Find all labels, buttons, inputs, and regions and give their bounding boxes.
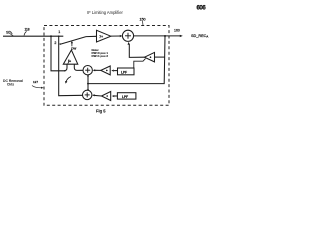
wire T2 output to S1	[128, 42, 145, 58]
figure caption	[96, 108, 106, 113]
junction node at input split	[50, 35, 52, 37]
wire amp to summer S1	[111, 35, 123, 37]
wire switch to amp	[86, 35, 97, 37]
switch arm SW	[59, 37, 86, 45]
wire return path 2 (to summer C2)	[59, 36, 83, 95]
output label SD_REC	[191, 34, 208, 39]
wire F1 to T3	[111, 70, 117, 72]
svg-text:127: 127	[33, 80, 38, 84]
svg-text:150: 150	[140, 18, 146, 22]
svg-text:160: 160	[174, 28, 180, 32]
feedback amp T2	[145, 52, 165, 62]
summer S1	[122, 30, 133, 41]
filter box F2	[117, 93, 135, 99]
wire input SDL	[3, 35, 63, 37]
title	[87, 10, 123, 15]
svg-text:SDL: SDL	[6, 30, 13, 35]
label 160	[174, 28, 180, 32]
svg-text:LPF: LPF	[121, 70, 127, 74]
leader arrow at return wire	[65, 77, 71, 84]
svg-text:606: 606	[197, 6, 207, 12]
summer C2	[83, 90, 92, 99]
sheet number 606	[197, 6, 207, 12]
wire F2 to T4	[112, 95, 118, 97]
gain amp T4	[102, 92, 111, 101]
svg-text:DW=1 pos 2: DW=1 pos 2	[92, 54, 109, 58]
limiting amp A1	[97, 30, 111, 42]
wire return path 1 (to integrator)	[51, 36, 66, 71]
summer C1	[83, 66, 92, 75]
svg-text:1: 1	[58, 30, 60, 34]
note text	[92, 48, 109, 58]
input label SDL	[6, 30, 14, 36]
svg-text:LPF: LPF	[122, 95, 128, 99]
junction node contact	[58, 35, 60, 37]
label 118	[24, 28, 30, 36]
svg-text:∫+: ∫+	[67, 60, 72, 64]
label 150	[140, 18, 146, 26]
wire feedback tap down and across	[88, 36, 165, 84]
svg-text:SD_RECA: SD_RECA	[191, 34, 208, 39]
switch position label 1	[58, 30, 60, 34]
filter box F1	[118, 68, 135, 75]
dashed enclosure (IF limiting amplifier block)	[44, 26, 169, 106]
wire F1 input from feedback node	[134, 59, 146, 68]
junction node output tap	[164, 35, 166, 37]
wire output	[134, 35, 183, 37]
control label DW	[71, 41, 77, 51]
integrator A2 (up triangle)	[63, 50, 83, 71]
wire T3 to C1	[93, 69, 101, 71]
switch position label 2	[54, 41, 56, 45]
svg-text:IF Limiting Amplifier: IF Limiting Amplifier	[87, 10, 123, 15]
svg-text:118: 118	[25, 28, 30, 32]
vertical wire between summers	[87, 75, 89, 91]
wire T4 to C2	[92, 94, 102, 96]
svg-text:Ckts: Ckts	[7, 83, 14, 87]
svg-text:2: 2	[54, 41, 56, 45]
svg-text:DW: DW	[71, 46, 76, 50]
svg-text:Fig 5: Fig 5	[96, 108, 106, 113]
svg-text:7+: 7+	[99, 35, 103, 39]
label 127 with leader arrow	[32, 80, 44, 89]
gain amp T3	[101, 66, 110, 75]
DC removal circuits label	[3, 79, 23, 87]
